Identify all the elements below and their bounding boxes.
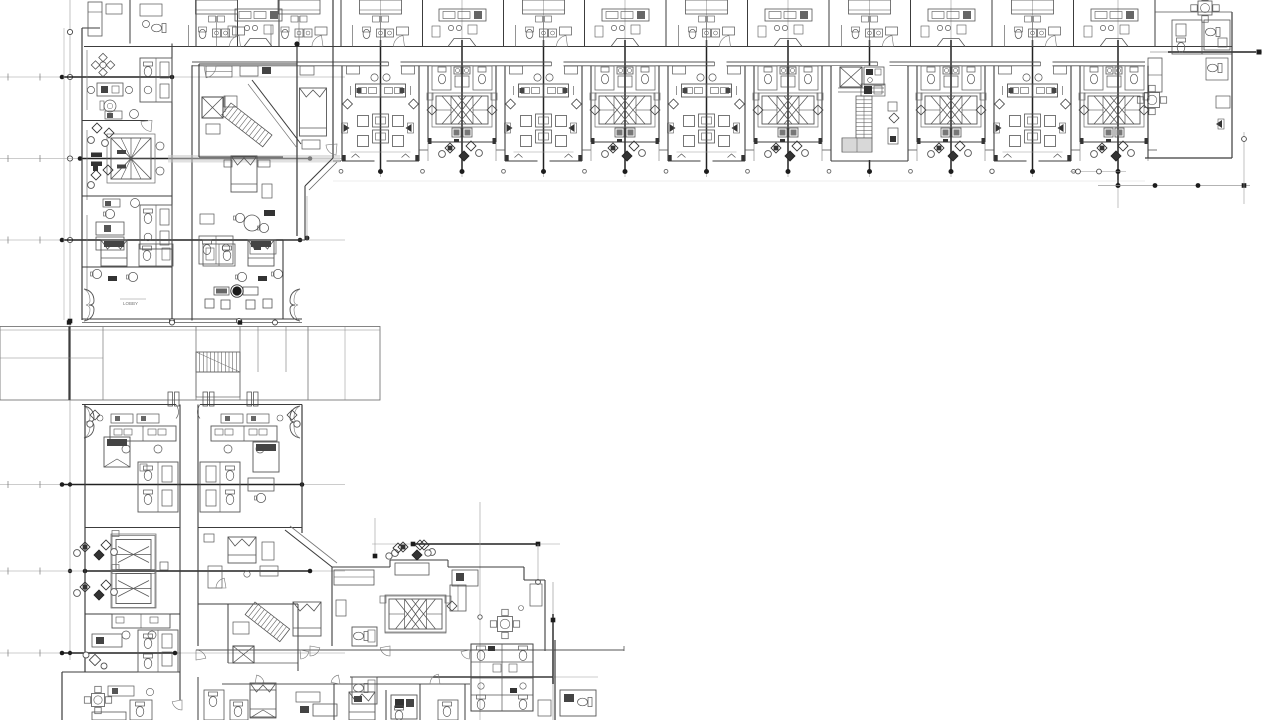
- canopy entry stair: [196, 352, 240, 397]
- stair core D elevator: [233, 646, 254, 663]
- lower wing desk row 3 west: [83, 614, 170, 669]
- left wing ceiling fan symbol: [91, 53, 114, 76]
- top wing bedroom at column x=625: [590, 66, 660, 161]
- bottom wing dining table: [490, 606, 523, 639]
- bottom wing corridor door arcs: [310, 646, 440, 684]
- lower wing desk row east: [211, 410, 300, 472]
- top wing upper room divider walls: [196, 0, 1155, 47]
- left wing grid shading band: [168, 155, 340, 163]
- bottom wing corridor walls: [196, 646, 624, 684]
- left wing west room: sitting row 1: [87, 58, 172, 112]
- lower wing bath cluster west: [138, 462, 178, 512]
- bottom wing mid bath stack lower: [352, 677, 377, 704]
- lower wing outer walls: [62, 405, 302, 720]
- left wing west room divider walls: [82, 196, 172, 267]
- niche decoration left: [84, 289, 94, 321]
- lower wing north wall with door: [82, 405, 302, 419]
- bottom wing bedroom with cross bed: [380, 540, 457, 633]
- top wing bedroom at column x=951: [916, 66, 986, 161]
- lower wing bath cluster 3 west: [138, 630, 178, 672]
- left wing west bedroom scattered chairs: [88, 123, 114, 188]
- lower wing room divider walls west: [85, 528, 180, 673]
- top wing bedroom at column x=462: [427, 66, 497, 161]
- top wing upper guest rooms furniture row: [189, 0, 1139, 47]
- east rooms: lounge with round table: [200, 210, 275, 233]
- stair core A closet row: [206, 66, 271, 77]
- left wing bed room upper wall with door: [82, 110, 152, 132]
- svg-text:LOBBY: LOBBY: [123, 301, 138, 306]
- entry door jambs: [168, 392, 258, 406]
- east wall interior line x=297: [294, 41, 299, 236]
- left wing east wall upper: [283, 0, 337, 319]
- top wing bedroom at column x=788: [753, 66, 823, 161]
- grid: horizontal row lines of left wing: [0, 74, 345, 657]
- top wing living room at column x=543.5: [505, 66, 583, 161]
- canopy columns and interior lines: [0, 327, 345, 401]
- left wing corridor walls (vertical): [172, 44, 192, 321]
- grid: right end column and row lines: [990, 0, 1262, 208]
- left wing outer west wall: [64, 28, 100, 320]
- lower wing niche decorations: [84, 406, 300, 438]
- top wing scan shadow line: [333, 180, 1145, 182]
- stair core D diagonal stair: [228, 602, 298, 671]
- grid: bottom wing column and row lines: [302, 196, 598, 720]
- top wing living room at column x=706.5: [668, 66, 746, 161]
- east rooms: V-bed room below core: [224, 156, 272, 198]
- lower wing east room desk: [248, 478, 274, 503]
- lobby south double wall with niches: [68, 240, 302, 324]
- lower wing room divider walls east: [198, 528, 302, 605]
- top wing living room at column x=1032.5: [994, 66, 1072, 161]
- lower wing top tables row: [97, 414, 283, 423]
- bottom wing east vestibule rooms: [208, 566, 466, 611]
- lower wing desk row west: [87, 410, 176, 467]
- lower wing corridor walls: [180, 405, 198, 720]
- top wing stair core at column x=869.5: [831, 66, 908, 161]
- hotel lobby furniture: [120, 285, 272, 309]
- lower wing bottom west rooms: [84, 650, 276, 720]
- top wing living room at column x=380.5: [342, 66, 420, 161]
- bottom wing west V-bed: [293, 600, 346, 636]
- lower wing bath cluster east: [200, 462, 240, 512]
- stair core A elevator: [202, 97, 223, 118]
- left wing west bedroom with star bed: [91, 134, 164, 208]
- lower wing east V-bed room: [204, 534, 274, 563]
- top wing right end unit: [1137, 0, 1232, 158]
- bottom wing wardrobe row: [334, 563, 542, 606]
- lower wing double cross-bed room west: [74, 531, 168, 609]
- top wing bedroom at column x=1114: [1079, 66, 1149, 161]
- bottom wing lower rooms: [250, 640, 596, 720]
- niche decoration right: [290, 289, 300, 321]
- east rooms: bath row at lobby level: [199, 236, 276, 264]
- left wing west room: office row 2: [96, 205, 172, 250]
- bottom wing extra lower room fixtures: [230, 692, 551, 720]
- top wing corridor walls: [84, 47, 1232, 68]
- bottom wing scatter near grid: [386, 540, 431, 559]
- bottom wing bath complex: [471, 644, 533, 711]
- bottom wing north wall: [332, 560, 545, 651]
- left wing top corner room: [88, 0, 166, 44]
- grid: vertical column lines of top wing: [339, 0, 1075, 177]
- stair core A diagonal partition: [248, 80, 301, 148]
- lower wing east diagonal wall: [285, 526, 337, 567]
- stair core A diagonal stair: [204, 66, 272, 147]
- canopy node markers: [67, 320, 278, 325]
- stair core A walls: [199, 64, 297, 157]
- left wing rooms above lobby with V-beds: [91, 240, 283, 282]
- top wing facade chase connectors: [333, 142, 1157, 161]
- grid: left column line A with node circles: [67, 0, 72, 660]
- entry canopy outline: [0, 327, 380, 401]
- bottom wing mid bath stack upper: [352, 627, 377, 646]
- east rooms upper: corner V-bed: [300, 66, 338, 155]
